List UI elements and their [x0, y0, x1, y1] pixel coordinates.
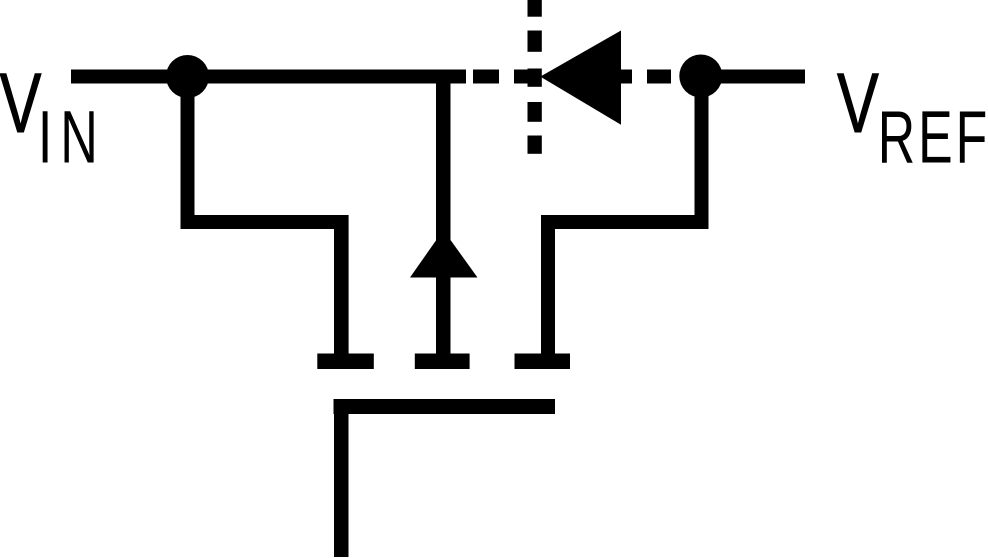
wire: right horizontal step to source lead [541, 215, 709, 229]
wire: gate lead [334, 399, 349, 557]
transistor Q1: gate bar [334, 399, 556, 414]
transistor Q1: bulk line [436, 77, 451, 354]
wire: left horizontal step to drain lead [181, 215, 349, 229]
node: right junction (source) [679, 55, 722, 98]
svg-text:V: V [0, 56, 42, 150]
svg-text:V: V [837, 56, 879, 150]
transistor Q1: channel segment (bulk, middle) [415, 354, 470, 370]
svg-text:REF: REF [878, 95, 988, 178]
transistor Q1: bulk arrow (pointing up) [410, 230, 478, 278]
wire: drain lead down to channel [334, 215, 349, 354]
transistor Q1: channel segment (drain side) [317, 354, 374, 370]
node: left junction (drain) [166, 55, 209, 98]
body diode D (triangle, pointing left) [540, 31, 621, 125]
label V_REF [837, 56, 988, 179]
wire: vertical drop from right junction [695, 76, 709, 229]
wire: V_IN input lead to MOSFET (solid top-left segment) [71, 70, 466, 84]
body diode D (dashed anode wire) [473, 70, 671, 84]
svg-text:IN: IN [38, 95, 106, 178]
wire: source lead down to channel [541, 215, 555, 354]
label V_IN [0, 56, 106, 179]
body diode D (dashed cathode bar, vertical) [528, 0, 542, 154]
transistor Q1: channel segment (source side) [515, 354, 571, 370]
wire: vertical drop from left junction [181, 77, 195, 230]
wire: V_REF lead (solid top-right segment) [700, 70, 805, 84]
